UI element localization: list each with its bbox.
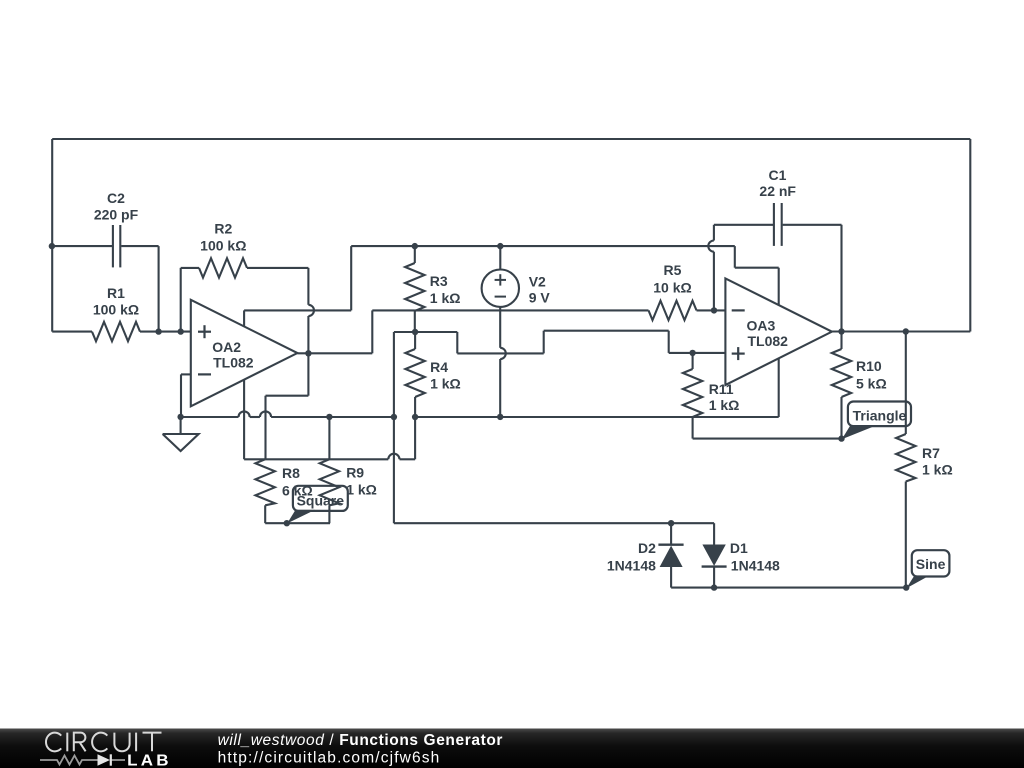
svg-text:C1: C1	[769, 167, 787, 183]
svg-text:R3: R3	[430, 273, 448, 289]
svg-text:R8: R8	[282, 465, 300, 481]
svg-text:Sine: Sine	[916, 556, 946, 572]
svg-text:1N4148: 1N4148	[607, 558, 656, 574]
svg-text:OA3: OA3	[747, 317, 776, 333]
svg-text:1 kΩ: 1 kΩ	[430, 290, 461, 306]
svg-text:1 kΩ: 1 kΩ	[709, 397, 740, 413]
svg-text:6 kΩ: 6 kΩ	[282, 483, 313, 499]
svg-text:TL082: TL082	[748, 333, 789, 349]
svg-text:R2: R2	[214, 221, 232, 237]
svg-text:C2: C2	[107, 190, 125, 206]
svg-text:R1: R1	[107, 285, 125, 301]
svg-text:R5: R5	[664, 262, 682, 278]
svg-text:R10: R10	[856, 358, 882, 374]
svg-text:R11: R11	[709, 381, 734, 397]
svg-text:LAB: LAB	[127, 752, 172, 768]
svg-text:D1: D1	[730, 540, 748, 556]
svg-text:100 kΩ: 100 kΩ	[200, 238, 246, 254]
svg-text:10 kΩ: 10 kΩ	[653, 279, 691, 295]
svg-text:V2: V2	[529, 274, 546, 290]
svg-text:D2: D2	[638, 540, 656, 556]
svg-text:TL082: TL082	[213, 354, 254, 370]
svg-text:http://circuitlab.com/cjfw6sh: http://circuitlab.com/cjfw6sh	[218, 749, 441, 766]
svg-text:1 kΩ: 1 kΩ	[430, 376, 461, 392]
svg-text:1 kΩ: 1 kΩ	[346, 482, 377, 498]
svg-text:1N4148: 1N4148	[731, 558, 780, 574]
svg-text:100 kΩ: 100 kΩ	[93, 302, 139, 318]
svg-text:22 nF: 22 nF	[759, 183, 796, 199]
svg-text:1 kΩ: 1 kΩ	[922, 462, 953, 478]
svg-text:OA2: OA2	[212, 339, 241, 355]
svg-text:R7: R7	[922, 445, 940, 461]
svg-text:Triangle: Triangle	[853, 407, 907, 423]
svg-text:9 V: 9 V	[529, 290, 551, 306]
svg-text:will_westwood / Functions Gene: will_westwood / Functions Generator	[218, 732, 503, 749]
svg-text:5 kΩ: 5 kΩ	[856, 376, 887, 392]
svg-text:R9: R9	[346, 464, 364, 480]
svg-text:220 pF: 220 pF	[94, 207, 139, 223]
svg-text:R4: R4	[430, 359, 448, 375]
